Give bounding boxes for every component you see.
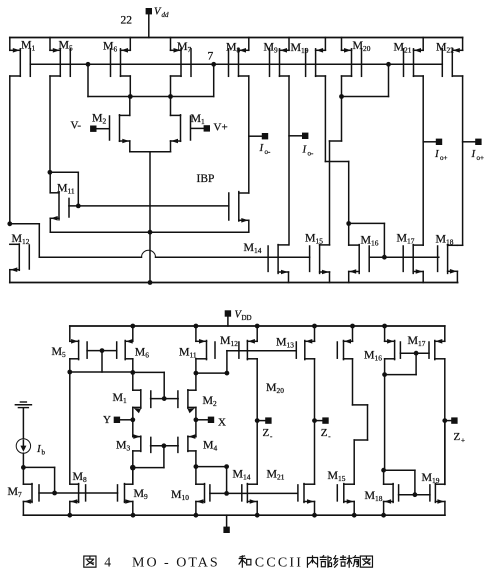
svg-text:V+: V+ [214, 122, 228, 134]
svg-text:DD: DD [242, 314, 252, 322]
svg-text:o+: o+ [440, 154, 448, 162]
svg-text:MO - OTAS: MO - OTAS [132, 556, 220, 571]
svg-text:IBP: IBP [197, 173, 215, 185]
svg-text:22: 22 [121, 15, 133, 27]
svg-text:o-: o- [265, 148, 272, 156]
svg-text:o-: o- [308, 150, 315, 158]
svg-text:dd: dd [162, 11, 170, 19]
svg-text:Z: Z [263, 427, 270, 439]
svg-text:Z: Z [321, 427, 328, 439]
svg-text:o+: o+ [477, 154, 485, 162]
svg-text:+: + [461, 437, 465, 445]
svg-text:Y: Y [103, 414, 111, 426]
svg-text:X: X [218, 416, 226, 428]
svg-text:CCCII: CCCII [255, 556, 303, 571]
svg-text:V-: V- [71, 120, 82, 132]
svg-text:7: 7 [208, 51, 214, 63]
svg-text:Z: Z [454, 431, 461, 443]
svg-text:4: 4 [104, 555, 111, 570]
svg-text:b: b [42, 449, 46, 457]
